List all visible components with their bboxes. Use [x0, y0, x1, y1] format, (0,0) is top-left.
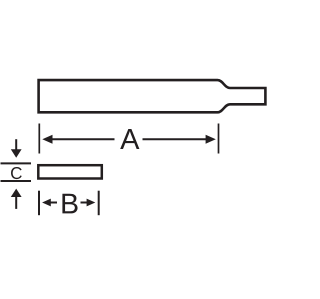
- label A: [120, 129, 139, 149]
- dimension B left arrow: [42, 199, 51, 207]
- dimension A left arrow: [42, 135, 52, 144]
- dimension C bottom extension line: [1, 180, 32, 182]
- cross-section rectangle: [38, 165, 102, 178]
- dimension C up arrow: [11, 189, 22, 197]
- dimension C down arrow: [15, 139, 17, 151]
- label C: [11, 167, 22, 179]
- dimension B left tick: [38, 191, 40, 216]
- dimension A right arrow: [206, 135, 216, 144]
- dimension A right tick: [218, 124, 220, 154]
- dimension A left tick: [38, 124, 40, 154]
- file blade outline: [39, 80, 266, 112]
- dimension C top extension line: [1, 162, 32, 164]
- dimension B right tick: [98, 191, 100, 216]
- dimension B right arrow: [87, 199, 96, 207]
- label B: [62, 194, 77, 214]
